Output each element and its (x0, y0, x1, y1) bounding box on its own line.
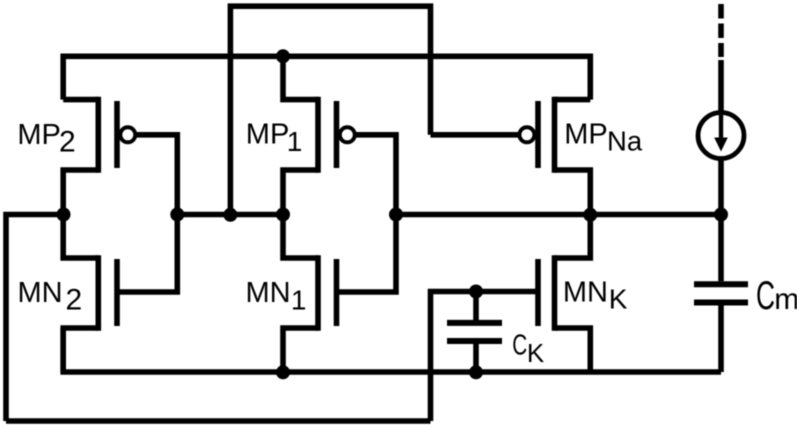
wire MP2 gate to node (137, 135, 178, 215)
svg-text:K: K (609, 284, 628, 315)
node MPNa/MNK drain junction (583, 208, 597, 222)
node MP2/MN2 gate junction (170, 208, 184, 222)
wire MN2 gate to node (117, 215, 177, 293)
node MP1/MN1 gate junction (389, 208, 403, 222)
node VDD-MP1 junction (276, 49, 290, 63)
wire VDD rail (63, 56, 590, 99)
svg-text:K: K (527, 338, 545, 368)
svg-text:MP: MP (246, 119, 289, 151)
transistor MP2 (63, 97, 98, 103)
svg-text:MP: MP (17, 119, 61, 151)
node output-CS junction (714, 208, 728, 222)
bubble MP2 gate (120, 127, 135, 142)
bubble MP1 gate (340, 127, 355, 142)
svg-text:MP: MP (564, 119, 608, 151)
svg-text:1: 1 (287, 126, 303, 157)
wire feedback bottom rail (6, 418, 431, 424)
bubble MPNa gate (519, 127, 534, 142)
svg-text:Na: Na (607, 126, 643, 157)
svg-text:m: m (774, 283, 797, 316)
svg-text:MN: MN (563, 277, 608, 309)
svg-text:MN: MN (18, 277, 63, 309)
transistor MNK (555, 215, 591, 259)
node MP1/MN1 drain junction (276, 208, 290, 222)
wire MNK gate / feedback (431, 292, 539, 422)
transistor MPNa (535, 101, 541, 168)
node CK bottom junction (469, 365, 483, 379)
wire node B (diode-connected segment) (172, 212, 287, 218)
svg-text:MN: MN (246, 277, 291, 309)
transistor MP1 (283, 56, 318, 99)
capacitor Cm (718, 215, 724, 282)
wire dashed supply lead (718, 4, 724, 57)
node top-link junction (223, 208, 237, 222)
transistor MN1 (283, 215, 318, 259)
node seg1-MP2/MN2 drain junction (57, 208, 71, 222)
wire MN1 gate to node (337, 215, 397, 293)
current source I (718, 60, 724, 111)
node CK top junction (469, 285, 483, 299)
wire MPNa gate (431, 132, 519, 138)
wire bottom rail (63, 328, 721, 372)
transistor MN2 (63, 215, 98, 259)
svg-text:C: C (512, 330, 527, 362)
capacitor CK (473, 292, 479, 321)
svg-text:1: 1 (291, 285, 307, 316)
wire node A (MP2/MN2 drain segment to feedback) (6, 215, 66, 422)
wire node C (output segment) (393, 212, 721, 218)
wire MP1 gate to node (356, 135, 396, 215)
svg-text:2: 2 (59, 126, 76, 159)
svg-text:2: 2 (66, 284, 83, 317)
wire top U link (MP1/MN1 drain node to MPNa gate) (230, 6, 430, 214)
svg-text:C: C (756, 274, 775, 318)
node MN1 source-rail junction (276, 365, 290, 379)
